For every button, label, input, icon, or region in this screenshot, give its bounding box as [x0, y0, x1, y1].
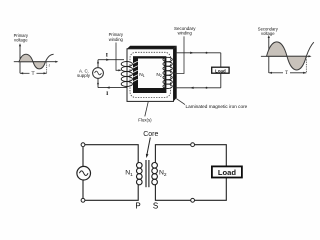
- t tick dashed: [46, 62, 48, 73]
- svg-text:voltage: voltage: [261, 31, 275, 36]
- A.C. source circle (top): [93, 68, 104, 79]
- flux pointer: [145, 102, 148, 117]
- core lines (bottom): [146, 160, 149, 187]
- svg-text:winding: winding: [178, 31, 193, 36]
- svg-text:T: T: [31, 72, 34, 77]
- svg-text:Flux(s): Flux(s): [138, 118, 152, 123]
- current arrow on top primary wire: [106, 59, 109, 61]
- primary coil hatches over window bar: [133, 61, 138, 81]
- primary winding coil rings: [121, 62, 132, 87]
- secondary voltage sine negative hump: [287, 56, 306, 70]
- svg-text:T: T: [285, 71, 288, 76]
- primary voltage label: [14, 33, 29, 43]
- svg-text:voltage: voltage: [14, 38, 28, 43]
- svg-text:supply: supply: [77, 73, 91, 78]
- current arrow secondary top: [190, 52, 193, 54]
- svg-text:Load: Load: [215, 68, 226, 73]
- period T dimension line: [20, 72, 47, 77]
- A.C. source circle (bottom): [77, 166, 91, 180]
- wire: AC top up and right: [98, 60, 124, 68]
- core window border: [133, 56, 166, 93]
- node dot bottom: [206, 87, 208, 89]
- secondary voltage horizontal axis: [261, 55, 312, 57]
- core pointer arrow: [146, 138, 150, 159]
- A.C. supply label: [77, 68, 91, 78]
- terminal bottom-left: [81, 198, 85, 202]
- terminal on top wire: [191, 143, 195, 147]
- left loop wires: [83, 145, 138, 201]
- core window interior: [138, 59, 164, 89]
- svg-text:P: P: [135, 202, 140, 211]
- secondary voltage sine positive hump: [267, 42, 288, 56]
- svg-text:winding: winding: [109, 37, 124, 42]
- secondary winding pointer: [173, 36, 184, 74]
- current arrow on bottom primary wire: [106, 86, 109, 88]
- terminal on bottom wire: [191, 198, 195, 202]
- secondary voltage sine tail: [306, 42, 314, 56]
- core 3D top face: [127, 46, 177, 49]
- secondary bottom wire from load: [175, 73, 221, 88]
- laminated core pointer: [176, 99, 185, 105]
- flux dashed loop: [130, 52, 171, 97]
- terminal top-left: [81, 143, 85, 147]
- svg-text:I: I: [106, 52, 108, 58]
- load box (bottom): [212, 166, 242, 177]
- core 3D right face: [174, 46, 177, 102]
- primary voltage horizontal axis: [14, 61, 59, 63]
- primary voltage vertical axis: [19, 43, 21, 73]
- primary voltage sine wave negative hump: [33, 62, 46, 69]
- primary coil (bottom) N1: [137, 163, 143, 185]
- svg-text:Laminated magnetic iron core: Laminated magnetic iron core: [186, 104, 248, 109]
- secondary winding coil rings: [163, 57, 172, 88]
- primary voltage sine wave positive hump: [19, 54, 33, 62]
- secondary voltage vertical axis: [268, 35, 270, 73]
- secondary winding label: [174, 26, 196, 36]
- svg-text:Load: Load: [218, 168, 237, 177]
- secondary period T dimension: [269, 71, 307, 76]
- arrow up on AC bottom vertical: [97, 81, 99, 84]
- svg-text:Core: Core: [143, 131, 158, 138]
- svg-text:S: S: [153, 202, 158, 211]
- secondary coil (bottom) N2: [152, 163, 158, 185]
- secondary period dashed tick: [305, 57, 307, 73]
- primary winding label: [109, 32, 124, 42]
- core front face: [127, 49, 174, 102]
- primary voltage sine tail: [46, 54, 54, 61]
- primary winding pointer: [116, 43, 122, 72]
- current arrow secondary bottom: [190, 87, 193, 89]
- secondary voltage label: [258, 26, 279, 36]
- svg-text:I: I: [106, 91, 108, 97]
- secondary top wire to load: [176, 53, 221, 67]
- load box (top): [212, 67, 229, 73]
- wire: AC bottom down and right: [98, 78, 127, 87]
- node dot top: [206, 52, 208, 54]
- arrow up on AC top vertical: [97, 60, 99, 63]
- right loop wires: [155, 145, 226, 201]
